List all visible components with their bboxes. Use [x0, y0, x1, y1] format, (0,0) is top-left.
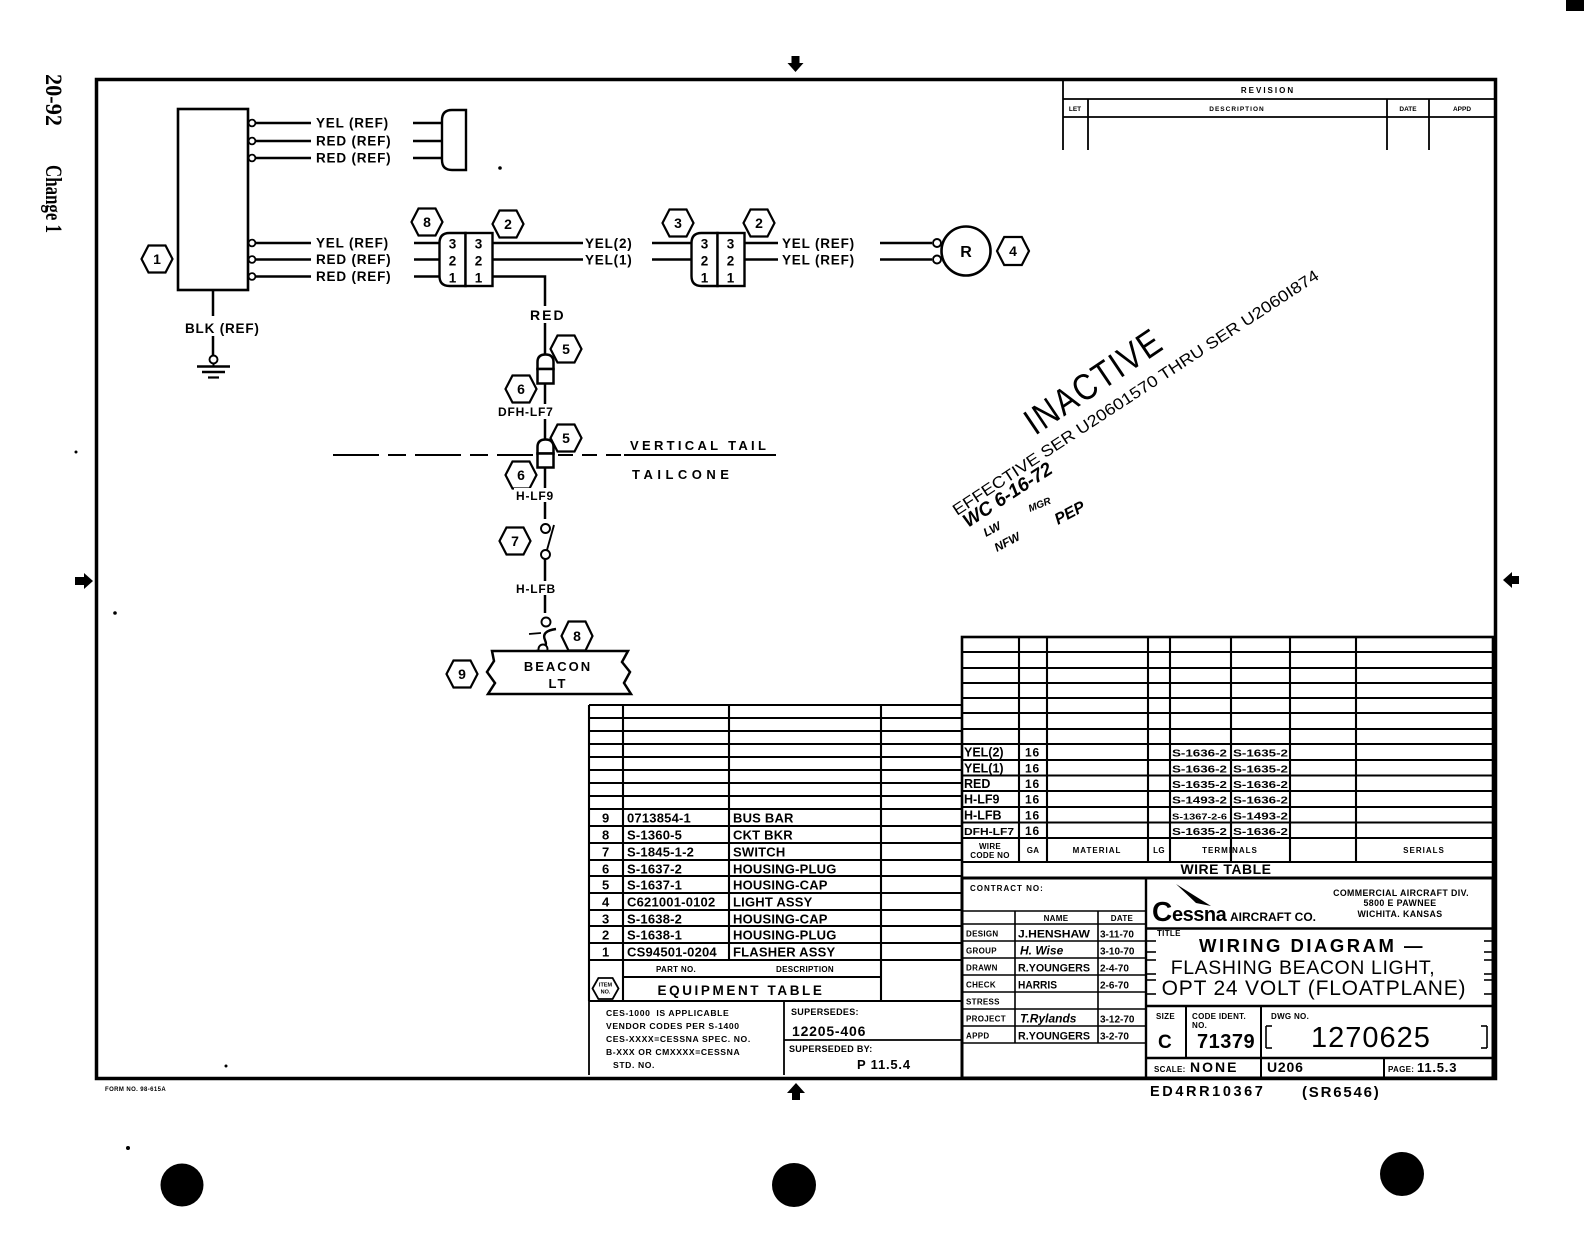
svg-text:PAGE:: PAGE:: [1388, 1065, 1414, 1074]
svg-text:S-1845-1-2: S-1845-1-2: [627, 845, 694, 860]
svg-text:3-10-70: 3-10-70: [1100, 947, 1135, 958]
svg-text:VERTICAL TAIL: VERTICAL TAIL: [630, 438, 769, 453]
svg-text:2: 2: [727, 254, 735, 269]
svg-text:WIRING DIAGRAM —: WIRING DIAGRAM —: [1199, 935, 1425, 956]
svg-text:YEL (REF): YEL (REF): [782, 236, 855, 251]
svg-text:DESCRIPTION: DESCRIPTION: [1209, 106, 1264, 113]
pin circle lower 3 of U1: [249, 273, 256, 280]
svg-text:BEACON: BEACON: [524, 659, 592, 674]
svg-text:CS94501-0204: CS94501-0204: [627, 945, 717, 960]
svg-text:16: 16: [1025, 824, 1040, 838]
svg-text:H-LF9: H-LF9: [964, 793, 999, 807]
svg-text:GA: GA: [1027, 846, 1040, 855]
wire YEL (REF) to beacon R upper: [745, 242, 778, 245]
housing cap/plug pair at bulkhead (items 5/6): [538, 440, 554, 468]
svg-text:YEL(1): YEL(1): [585, 253, 633, 268]
svg-text:FLASHING BEACON LIGHT,: FLASHING BEACON LIGHT,: [1171, 957, 1436, 979]
svg-text:16: 16: [1025, 793, 1040, 807]
svg-text:SWITCH: SWITCH: [733, 845, 785, 860]
svg-text:2: 2: [504, 216, 512, 232]
svg-text:STD. NO.: STD. NO.: [613, 1060, 655, 1070]
size / code ident / dwg no: [1156, 1012, 1487, 1054]
svg-text:RED: RED: [964, 777, 990, 791]
svg-text:DRAWN: DRAWN: [966, 964, 998, 973]
svg-text:U206: U206: [1267, 1059, 1304, 1075]
svg-text:TERMINALS: TERMINALS: [1202, 846, 1258, 855]
callout hexagon 7 (switch): [500, 528, 531, 555]
wire YEL (REF) to beacon R lower: [745, 258, 778, 261]
svg-text:S-1636-2: S-1636-2: [1172, 765, 1228, 776]
svg-text:2-4-70: 2-4-70: [1100, 964, 1129, 975]
svg-text:R.YOUNGERS: R.YOUNGERS: [1018, 963, 1090, 975]
svg-text:HOUSING-CAP: HOUSING-CAP: [733, 912, 828, 927]
svg-text:CES-1000 IS APPLICABLE: CES-1000 IS APPLICABLE: [606, 1008, 729, 1018]
pin circle lower 1 of U1: [249, 240, 256, 247]
svg-text:VENDOR CODES PER S-1400: VENDOR CODES PER S-1400: [606, 1021, 740, 1031]
svg-text:H. Wise: H. Wise: [1020, 944, 1064, 958]
svg-text:C621001-0102: C621001-0102: [627, 895, 715, 910]
svg-text:0713854-1: 0713854-1: [627, 811, 691, 826]
svg-text:R.YOUNGERS: R.YOUNGERS: [1018, 1031, 1090, 1043]
wire label RED: [528, 306, 568, 323]
svg-text:16: 16: [1025, 777, 1040, 791]
svg-text:WIRE: WIRE: [979, 842, 1001, 851]
svg-text:BLK (REF): BLK (REF): [185, 321, 260, 336]
svg-text:TITLE: TITLE: [1157, 929, 1181, 938]
pin circle upper 1 of U1: [249, 120, 256, 127]
svg-text:DATE: DATE: [1399, 106, 1417, 113]
svg-text:LET: LET: [1069, 106, 1081, 113]
wire RED feed (turns down): [493, 277, 545, 356]
svg-text:AIRCRAFT CO.: AIRCRAFT CO.: [1230, 910, 1316, 924]
svg-text:DATE: DATE: [1111, 914, 1134, 923]
svg-text:APPD: APPD: [966, 1032, 989, 1041]
scan specks: [75, 451, 78, 454]
callout hexagon 4 (light assy): [997, 237, 1029, 265]
svg-text:2-6-70: 2-6-70: [1100, 981, 1129, 992]
callout hexagon 8b (ckt bkr): [562, 622, 593, 651]
svg-text:S-1638-2: S-1638-2: [627, 912, 682, 927]
svg-text:1: 1: [475, 271, 483, 286]
svg-text:S-1493-2: S-1493-2: [1233, 812, 1289, 823]
rotating beacon lamp R (item 4): [933, 227, 991, 276]
svg-text:DFH-LF7: DFH-LF7: [964, 827, 1015, 838]
svg-text:3: 3: [674, 215, 682, 231]
svg-text:NONE: NONE: [1190, 1059, 1238, 1075]
svg-text:6: 6: [517, 381, 525, 397]
svg-text:DWG NO.: DWG NO.: [1271, 1012, 1309, 1021]
svg-text:S-1638-1: S-1638-1: [627, 928, 682, 943]
wire H-LFB: [544, 559, 547, 613]
svg-text:EQUIPMENT TABLE: EQUIPMENT TABLE: [658, 983, 825, 998]
callout hexagon 2 (housing-plug): [493, 211, 524, 238]
svg-text:essna: essna: [1172, 904, 1228, 926]
callout hexagon 6b (housing-plug): [506, 462, 537, 489]
bulkhead dashed line vertical tail / tailcone: [333, 454, 533, 456]
callout hexagon 1 (flasher assy): [142, 246, 173, 273]
svg-text:HARRIS: HARRIS: [1018, 980, 1057, 992]
svg-text:71379: 71379: [1197, 1031, 1255, 1053]
svg-text:CONTRACT NO:: CONTRACT NO:: [970, 884, 1044, 893]
svg-text:2: 2: [602, 928, 610, 943]
svg-text:3: 3: [727, 237, 735, 252]
svg-text:ED4RR10367: ED4RR10367: [1150, 1084, 1265, 1100]
wire U1 lower pin 1 to connector P1: [256, 242, 311, 245]
svg-text:SERIALS: SERIALS: [1403, 846, 1445, 855]
svg-text:5: 5: [562, 341, 570, 357]
wire U1 lower pin 2 to connector P1: [256, 258, 311, 261]
callout hexagon 6 (housing-plug S-1637-2): [506, 376, 537, 403]
title text: [1157, 929, 1466, 1000]
wire U1 upper pin 2 to cap: [256, 140, 311, 143]
svg-text:S-1493-2: S-1493-2: [1172, 796, 1228, 807]
switch S1 (item 7): [541, 524, 554, 559]
svg-text:NO.: NO.: [601, 990, 611, 996]
svg-text:(SR6546): (SR6546): [1302, 1084, 1381, 1101]
svg-text:SUPERSEDED BY:: SUPERSEDED BY:: [789, 1044, 873, 1054]
registration arrow bottom center: [787, 1083, 805, 1100]
svg-text:RED (REF): RED (REF): [316, 269, 391, 284]
svg-text:CODE IDENT.: CODE IDENT.: [1192, 1012, 1246, 1021]
svg-text:SUPERSEDES:: SUPERSEDES:: [791, 1007, 859, 1017]
svg-text:APPD: APPD: [1453, 106, 1471, 113]
svg-text:C: C: [1152, 896, 1172, 927]
svg-text:5: 5: [562, 430, 570, 446]
svg-text:7: 7: [511, 533, 519, 549]
housing cap/plug pair upper (items 5/6): [538, 355, 554, 384]
wire U1 upper pin 1 to cap: [256, 122, 311, 125]
svg-text:C: C: [1158, 1032, 1172, 1053]
flasher assy U1 (item 1): [178, 109, 248, 290]
svg-text:HOUSING-PLUG: HOUSING-PLUG: [733, 862, 837, 877]
svg-text:DESCRIPTION: DESCRIPTION: [776, 965, 834, 974]
svg-text:1: 1: [701, 271, 709, 286]
title bracket ticks: [1147, 941, 1492, 994]
svg-text:RED (REF): RED (REF): [316, 151, 391, 166]
svg-text:CES-XXXX=CESSNA SPEC. NO.: CES-XXXX=CESSNA SPEC. NO.: [606, 1034, 751, 1044]
svg-text:MATERIAL: MATERIAL: [1073, 846, 1122, 855]
svg-text:SCALE:: SCALE:: [1154, 1065, 1186, 1074]
svg-text:2: 2: [755, 215, 763, 231]
svg-text:1: 1: [727, 271, 735, 286]
svg-text:1: 1: [153, 251, 161, 267]
svg-text:3-12-70: 3-12-70: [1100, 1015, 1135, 1026]
supersedes block: [784, 1007, 962, 1072]
corner registration block top right: [1566, 0, 1584, 11]
svg-text:6: 6: [602, 862, 610, 877]
svg-text:BUS BAR: BUS BAR: [733, 811, 794, 826]
svg-text:NAME: NAME: [1044, 914, 1069, 923]
svg-text:NO.: NO.: [1192, 1021, 1207, 1030]
callout hexagon 5 (housing-cap S-1637-1): [551, 336, 582, 363]
svg-text:3: 3: [475, 237, 483, 252]
quick disconnect splice: [529, 618, 556, 654]
svg-text:11.5.3: 11.5.3: [1417, 1060, 1457, 1075]
registration dot bottom left: [161, 1164, 204, 1207]
svg-text:8: 8: [573, 628, 581, 644]
svg-text:STRESS: STRESS: [966, 998, 1000, 1007]
registration dot bottom right: [1380, 1152, 1424, 1196]
svg-text:CHECK: CHECK: [966, 981, 996, 990]
drawing border frame: [97, 80, 1496, 1079]
svg-text:5: 5: [602, 878, 610, 893]
svg-text:B-XXX OR CMXXXX=CESSNA: B-XXX OR CMXXXX=CESSNA: [606, 1047, 740, 1057]
svg-text:9: 9: [602, 811, 610, 826]
svg-text:16: 16: [1025, 746, 1040, 760]
pin circle upper 2 of U1: [249, 138, 256, 145]
svg-text:WIRE TABLE: WIRE TABLE: [1180, 861, 1271, 877]
svg-text:PROJECT: PROJECT: [966, 1015, 1006, 1024]
svg-text:3: 3: [701, 237, 709, 252]
svg-text:3-11-70: 3-11-70: [1100, 930, 1134, 941]
item no octagon symbol: [593, 978, 619, 999]
svg-text:1: 1: [602, 945, 610, 960]
equipment table entries: [602, 811, 837, 960]
svg-text:LT: LT: [549, 676, 568, 691]
svg-text:S-1635-2: S-1635-2: [1172, 827, 1228, 838]
wire table headers: [970, 842, 1445, 860]
svg-text:20-92: 20-92: [41, 74, 66, 126]
svg-text:WICHITA. KANSAS: WICHITA. KANSAS: [1357, 909, 1442, 919]
callout hexagon 2b (housing-plug): [744, 210, 775, 237]
pin circle upper 3 of U1: [249, 155, 256, 162]
svg-text:RED (REF): RED (REF): [316, 134, 391, 149]
svg-text:PART NO.: PART NO.: [656, 965, 696, 974]
connector block P1/J1 (items 8,2): [440, 233, 493, 286]
callout hexagon 9 (bus bar): [447, 661, 478, 688]
svg-text:COMMERCIAL AIRCRAFT DIV.: COMMERCIAL AIRCRAFT DIV.: [1333, 888, 1469, 898]
wire DFH-LF7: [544, 384, 547, 440]
svg-text:YEL(2): YEL(2): [964, 746, 1004, 760]
svg-text:S-1636-2: S-1636-2: [1233, 796, 1289, 807]
svg-text:S-1635-2: S-1635-2: [1233, 765, 1289, 776]
svg-text:S-1636-2: S-1636-2: [1172, 749, 1228, 760]
handwritten drawing numbers below border: [1150, 1084, 1381, 1101]
svg-text:4: 4: [1009, 243, 1017, 259]
svg-text:FORM NO. 98-615A: FORM NO. 98-615A: [105, 1087, 166, 1093]
registration arrow right middle: [1503, 572, 1519, 588]
svg-text:YEL (REF): YEL (REF): [316, 236, 389, 251]
wire table entries: [964, 746, 1289, 839]
vendor code notes block: [589, 1001, 784, 1075]
callout hexagon 5b (housing-cap): [551, 425, 582, 452]
svg-text:SIZE: SIZE: [1156, 1012, 1175, 1021]
ground symbol: [197, 356, 230, 378]
svg-text:P 11.5.4: P 11.5.4: [857, 1057, 911, 1072]
svg-text:7: 7: [602, 845, 610, 860]
wire YEL(1): [493, 258, 583, 261]
connector block P2/J2 (items 3,2): [692, 233, 745, 286]
svg-text:CODE NO: CODE NO: [970, 851, 1009, 860]
division address: [1333, 888, 1469, 919]
svg-text:Change 1: Change 1: [41, 165, 66, 233]
svg-text:2: 2: [475, 254, 483, 269]
title block outline: [962, 878, 1493, 1078]
svg-text:6: 6: [517, 467, 525, 483]
svg-text:RED (REF): RED (REF): [316, 252, 391, 267]
signature rows: [966, 929, 1135, 1043]
svg-text:DFH-LF7: DFH-LF7: [498, 405, 554, 419]
pin circle lower 2 of U1: [249, 256, 256, 263]
svg-text:8: 8: [602, 828, 610, 843]
svg-text:HOUSING-CAP: HOUSING-CAP: [733, 878, 828, 893]
svg-text:S-1637-1: S-1637-1: [627, 878, 682, 893]
svg-text:4: 4: [602, 895, 610, 910]
svg-text:GROUP: GROUP: [966, 947, 997, 956]
svg-text:H-LFB: H-LFB: [516, 582, 556, 596]
svg-text:YEL (REF): YEL (REF): [316, 116, 389, 131]
wire table grid: [962, 637, 1493, 878]
svg-text:3: 3: [449, 237, 457, 252]
svg-text:16: 16: [1025, 809, 1040, 823]
equipment table grid: [589, 705, 962, 1001]
wire H-LF9: [544, 468, 547, 520]
svg-text:H-LFB: H-LFB: [964, 809, 1002, 823]
svg-text:H-LF9: H-LF9: [516, 489, 554, 503]
svg-text:ITEM: ITEM: [599, 983, 613, 989]
svg-text:TAILCONE: TAILCONE: [632, 467, 733, 482]
registration arrow left middle: [75, 573, 93, 589]
wire YEL(2): [493, 242, 583, 245]
svg-text:8: 8: [423, 214, 431, 230]
svg-text:1270625: 1270625: [1311, 1022, 1431, 1054]
svg-text:FLASHER ASSY: FLASHER ASSY: [733, 945, 835, 960]
callout hexagon 8 (ckt bkr): [412, 209, 443, 236]
registration arrow top center: [788, 56, 804, 72]
wire U1 lower pin 3 to connector P1: [256, 275, 311, 278]
scale row: [1154, 1059, 1457, 1075]
svg-text:12205-406: 12205-406: [792, 1023, 866, 1039]
wire BLK ground lead: [212, 290, 215, 316]
svg-text:J.HENSHAW: J.HENSHAW: [1018, 929, 1091, 941]
svg-text:16: 16: [1025, 762, 1040, 776]
svg-text:LIGHT ASSY: LIGHT ASSY: [733, 895, 813, 910]
beacon light banner: [487, 651, 631, 694]
svg-text:R: R: [960, 244, 972, 261]
svg-text:S-1360-5: S-1360-5: [627, 828, 682, 843]
svg-text:3-2-70: 3-2-70: [1100, 1032, 1129, 1043]
svg-text:2: 2: [449, 254, 457, 269]
svg-text:S-1636-2: S-1636-2: [1233, 827, 1289, 838]
svg-text:2: 2: [701, 254, 709, 269]
svg-text:REVISION: REVISION: [1241, 86, 1295, 95]
svg-text:9: 9: [458, 666, 466, 682]
revision table: [1063, 81, 1495, 150]
svg-text:OPT 24 VOLT (FLOATPLANE): OPT 24 VOLT (FLOATPLANE): [1162, 977, 1467, 1000]
svg-text:CKT BKR: CKT BKR: [733, 828, 793, 843]
svg-text:LG: LG: [1153, 846, 1165, 855]
svg-text:5800 E PAWNEE: 5800 E PAWNEE: [1364, 898, 1437, 908]
svg-text:YEL(2): YEL(2): [585, 236, 633, 251]
svg-text:3: 3: [602, 912, 610, 927]
svg-text:DESIGN: DESIGN: [966, 930, 998, 939]
svg-text:T.Rylands: T.Rylands: [1020, 1012, 1077, 1026]
svg-text:1: 1: [449, 271, 457, 286]
svg-text:YEL (REF): YEL (REF): [782, 253, 855, 268]
svg-text:S-1635-2: S-1635-2: [1172, 780, 1228, 791]
svg-text:S-1636-2: S-1636-2: [1233, 780, 1289, 791]
wire U1 upper pin 3 to cap: [256, 157, 311, 160]
svg-text:S-1637-2: S-1637-2: [627, 862, 682, 877]
housing cap connector (item 3) top: [442, 110, 466, 170]
svg-text:RED: RED: [530, 307, 566, 323]
registration dot bottom center: [772, 1163, 816, 1207]
svg-text:YEL(1): YEL(1): [964, 762, 1004, 776]
svg-text:S-1367-2-6: S-1367-2-6: [1172, 812, 1227, 822]
contract / signature grid: [962, 911, 1146, 1043]
svg-text:HOUSING-PLUG: HOUSING-PLUG: [733, 928, 837, 943]
svg-text:S-1635-2: S-1635-2: [1233, 749, 1289, 760]
callout hexagon 3 (housing-cap): [663, 210, 694, 237]
Cessna logo: [1152, 884, 1316, 927]
